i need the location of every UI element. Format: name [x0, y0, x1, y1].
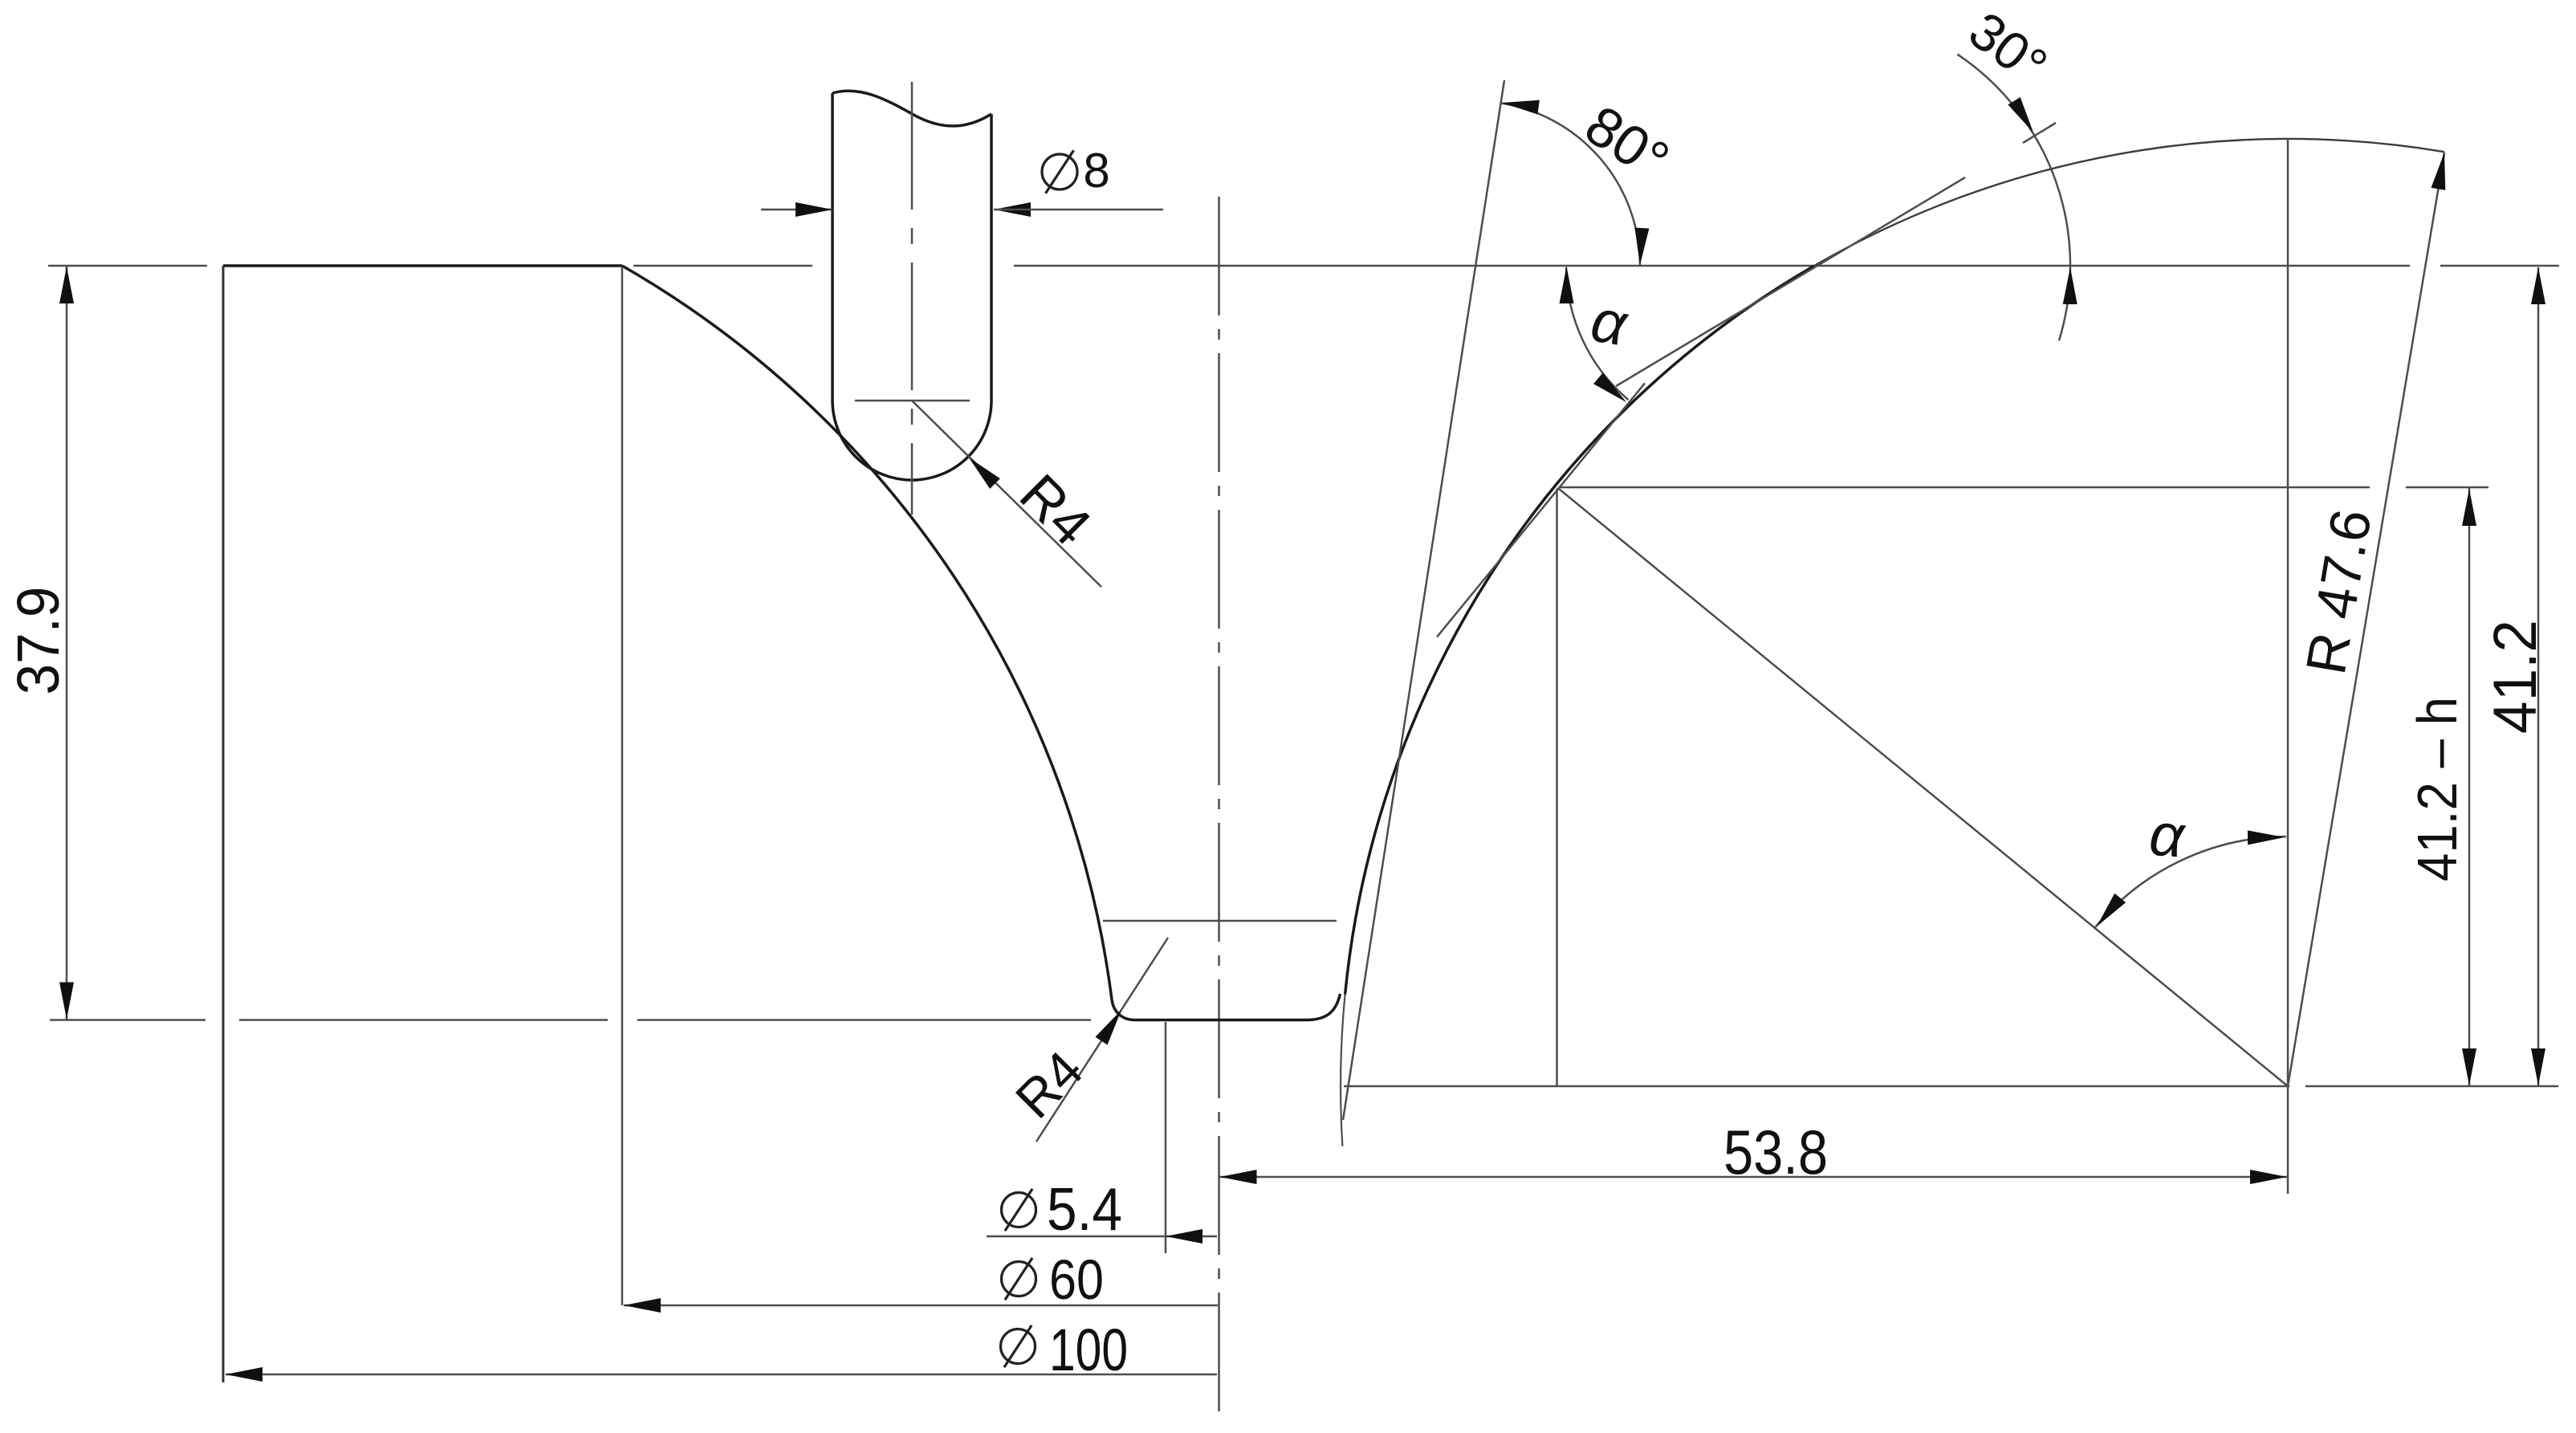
- Ø5.4 extension line: [1165, 1022, 1167, 1253]
- dimension 41.2 line: [2537, 267, 2540, 1086]
- dimension Ø60 arrow: [624, 1298, 661, 1313]
- tangent line at P: [1437, 383, 1645, 637]
- cavity right wall profile (R47.6 arc): [1345, 266, 1814, 995]
- dimension 41.2−h line: [2468, 488, 2471, 1086]
- punch ball tip (R4 hemisphere): [832, 401, 991, 480]
- top surface level extension between cavity edge and punch: [633, 265, 812, 267]
- leader R4 bottom arrow: [1095, 1006, 1127, 1044]
- dimension 30° arc: [1957, 55, 2070, 341]
- dimension Ø100 line: [226, 1374, 1217, 1376]
- 80-degree tangent line: [1343, 80, 1504, 1120]
- dimension 53.8 line: [1219, 1176, 2289, 1179]
- dimension Ø8 line right: [994, 209, 1163, 211]
- label Ø8 symbol: [1042, 154, 1077, 189]
- dimension Ø8 arrow right-pointing: [796, 202, 832, 217]
- svg-text:5.4: 5.4: [1047, 1175, 1122, 1243]
- R47.6 arc construction continuation above surface: [1814, 139, 2444, 266]
- dimension α arc (top): [1566, 267, 1628, 400]
- extension line, cavity bottom level (37.9): [50, 1019, 206, 1021]
- punch right edge: [990, 114, 993, 401]
- cavity left wall (R47.6 arc mirrored): [622, 266, 1112, 999]
- svg-text:41.2 – h: 41.2 – h: [2406, 697, 2468, 881]
- leader R4 (bottom fillet): [1036, 938, 1168, 1142]
- dimension 53.8 arrow right: [2250, 1170, 2287, 1184]
- svg-text:53.8: 53.8: [1723, 1117, 1828, 1187]
- punch centerline (dash-dot): [911, 82, 914, 515]
- dimension 53.8 arrow left: [1220, 1170, 1257, 1184]
- dimension 80° arc: [1501, 104, 1640, 267]
- label Ø5.4 symbol: [1002, 1193, 1036, 1227]
- svg-text:30°: 30°: [1959, 0, 2058, 96]
- 30-degree tangent line: [1616, 177, 1965, 386]
- 41.2−h arrow up: [2462, 489, 2476, 526]
- construction base line: [1344, 1085, 2289, 1088]
- α bottom arrow at radius line: [2091, 894, 2126, 931]
- svg-text:80°: 80°: [1574, 93, 1679, 192]
- svg-text:R4: R4: [1008, 462, 1103, 557]
- 41.2−h arrow down: [2462, 1048, 2476, 1085]
- 30° arc arrow at surface: [2063, 267, 2077, 304]
- label Ø100 symbol: [1001, 1329, 1036, 1364]
- 41.2 arrow down: [2531, 1048, 2545, 1085]
- dimension 37.9 arrow down: [59, 983, 74, 1020]
- svg-text:α: α: [1586, 286, 1634, 359]
- leader R4 arrow: [964, 453, 1000, 489]
- punch left edge: [831, 93, 834, 401]
- 80° arc arrow at line: [1501, 96, 1540, 114]
- dimension Ø5.4 line: [987, 1236, 1217, 1238]
- R47.6 leader line: [2288, 153, 2444, 1086]
- horizontal h-level line from P: [1559, 486, 2370, 489]
- 30° arc arrow at tangent: [2008, 97, 2039, 136]
- R47.6 arc construction continuation below fillet: [1341, 995, 1345, 1146]
- dimension 37.9 arrow up: [59, 267, 74, 303]
- dimension Ø5.4 arrow: [1166, 1229, 1203, 1244]
- svg-text:R 47.6: R 47.6: [2294, 505, 2383, 678]
- dimension Ø8 line left: [761, 209, 832, 211]
- cavity bottom right fillet R4: [1306, 994, 1341, 1020]
- extension line, top surface level, left of die: [48, 265, 207, 267]
- svg-text:37.9: 37.9: [5, 587, 71, 695]
- fillet center horizontal line: [1103, 920, 1337, 922]
- radius line P to centre: [1559, 489, 2289, 1087]
- punch break (wavy) top line: [832, 91, 991, 126]
- vertical from P: [1556, 489, 1558, 1087]
- svg-text:60: 60: [1049, 1248, 1104, 1311]
- R47.6 leader arrow: [2432, 152, 2452, 190]
- punch ball center horizontal line: [855, 400, 970, 402]
- 41.2 arrow up: [2531, 267, 2545, 304]
- die top surface edge: [223, 264, 622, 267]
- svg-text:8: 8: [1083, 144, 1109, 197]
- leader R4 (punch tip radius): [912, 401, 1101, 587]
- cavity bottom left fillet R4: [1112, 999, 1135, 1020]
- 80° arc arrow at surface: [1633, 228, 1649, 266]
- α bottom arrow at vertical: [2248, 830, 2285, 845]
- Ø60 extension line at cavity opening: [621, 266, 624, 1305]
- label Ø60 symbol: [1002, 1262, 1036, 1297]
- dimension Ø100 arrow: [226, 1367, 262, 1382]
- α top arrow lower: [1593, 372, 1631, 407]
- dimension 37.9 line: [66, 266, 68, 1020]
- cavity flat bottom: [1135, 1019, 1306, 1022]
- dimension α arc (bottom): [2095, 837, 2286, 928]
- dimension Ø60 line: [624, 1305, 1218, 1307]
- svg-text:R4: R4: [1004, 1040, 1094, 1130]
- svg-text:41.2: 41.2: [2481, 620, 2550, 734]
- vertical through radius centre: [2287, 139, 2289, 1194]
- die centerline (dash-dot): [1218, 197, 1220, 1415]
- die left edge / Ø100 extension line: [222, 266, 225, 1382]
- dimension Ø8 arrow left-pointing: [994, 202, 1031, 217]
- top surface level extension right of punch (to 41.2 extension): [1014, 265, 2410, 267]
- α top arrow up: [1560, 267, 1574, 303]
- svg-text:100: 100: [1049, 1317, 1128, 1383]
